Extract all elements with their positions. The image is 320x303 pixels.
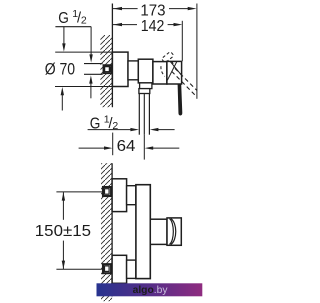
extension line 142 (right)	[181, 21, 183, 61]
dia70 up arrow	[61, 95, 63, 111]
wall face / extension line (upper)	[111, 4, 113, 108]
arrowhead 142 right	[174, 23, 183, 26]
dashed lever diagonal line 1	[172, 71, 197, 97]
bottom neck (front)	[127, 260, 136, 278]
top neck (front)	[127, 186, 136, 205]
wall hatch (lower)	[101, 163, 112, 301]
knob arc inner	[170, 219, 174, 245]
hose tube left line	[138, 94, 140, 135]
dashed lever (up position)	[161, 51, 174, 63]
arrowhead 173 right	[188, 7, 197, 10]
top wall fitting (front)	[103, 187, 111, 196]
end cap (side)	[153, 62, 167, 84]
dimension 173 line	[113, 8, 189, 10]
150 up arrowhead	[62, 192, 65, 200]
150 down arrowhead	[62, 261, 65, 269]
dashed lever diagonal line 2	[175, 68, 197, 90]
arrowhead 173 left	[113, 7, 122, 10]
lever pivot block (side)	[167, 61, 182, 84]
supply pipe bottom line	[84, 73, 103, 75]
G1/2 bottom arrow right-pointing	[130, 128, 139, 131]
algo.by watermark bar	[97, 283, 203, 296]
handle knob (front)	[167, 218, 181, 245]
pipe union fitting in wall	[104, 65, 112, 73]
svg-text:64: 64	[117, 138, 136, 155]
lever edge diagonal A	[167, 62, 176, 81]
lever edge diagonal B	[170, 62, 181, 75]
64 dim left arrow	[79, 147, 105, 149]
64 right extension line (tube centre)	[143, 135, 145, 160]
G1/2 top underline	[55, 26, 91, 28]
mixer body bar (front)	[136, 185, 150, 279]
bottom wall fitting (front)	[103, 264, 111, 273]
cartridge housing (side)	[138, 59, 153, 83]
dashed swing arc (small, near pivot)	[172, 62, 174, 67]
hose tube middle line	[143, 94, 145, 135]
svg-text:173: 173	[140, 2, 165, 19]
150 bottom extension line	[56, 268, 102, 270]
extension line 173 (right)	[196, 4, 198, 99]
dimension 142 line	[113, 24, 175, 26]
neck (side)	[128, 61, 138, 80]
top escutcheon plate (front)	[112, 179, 127, 212]
svg-text:2: 2	[81, 14, 87, 26]
dia 70 top extension line	[55, 51, 112, 53]
outlet nut	[139, 89, 150, 94]
supply pipe top line	[84, 63, 103, 65]
escutcheon (side)	[112, 52, 128, 86]
svg-text:algo.by: algo.by	[133, 285, 169, 296]
svg-text:150±15: 150±15	[35, 223, 91, 240]
dia 70 bottom extension line	[55, 86, 112, 88]
G1/2 bottom underline leader	[88, 129, 132, 131]
handle stem (front)	[150, 219, 167, 244]
wall face line (lower)	[111, 163, 113, 296]
bottom escutcheon plate (front)	[112, 255, 127, 283]
G1/2 top leader arrow (down)	[90, 27, 92, 56]
outlet stub below housing	[140, 83, 152, 89]
dashed swing arc (left)	[161, 66, 165, 76]
G1/2 pipe lower arrow (up)	[90, 83, 92, 98]
arrowhead 142 left	[113, 23, 122, 26]
svg-text:Ø 70: Ø 70	[45, 60, 75, 79]
svg-text:G: G	[58, 10, 69, 27]
64 left extension line	[112, 133, 114, 156]
64 dim right arrow	[145, 146, 154, 149]
G1/2 bottom mirrored arrow (left-pointing)	[150, 128, 159, 131]
150 top extension line	[56, 191, 102, 193]
hose tube right line	[148, 94, 150, 135]
wall hatch (upper)	[100, 35, 112, 107]
150 dim vertical line	[62, 192, 64, 220]
svg-text:142: 142	[141, 18, 165, 35]
knob arc outer	[171, 219, 176, 245]
dia70 down arrow	[63, 27, 65, 45]
lever bar (down position, solid)	[178, 84, 183, 116]
